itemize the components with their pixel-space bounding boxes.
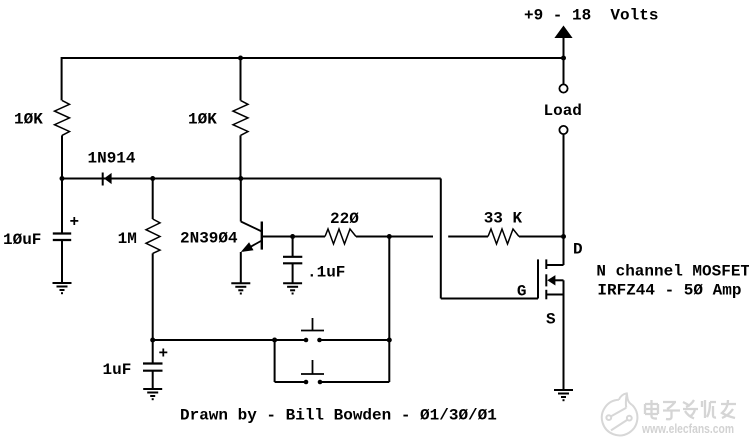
- wire 10uF bottom: [61, 240, 63, 283]
- resistor 10K right: [233, 100, 248, 135]
- wire collector: [240, 179, 242, 222]
- svg-text:N channel MOSFET: N channel MOSFET: [596, 263, 749, 281]
- junction top rail 10K: [238, 56, 243, 61]
- terminal load bottom circle: [559, 126, 567, 134]
- ground 10uF: [53, 283, 72, 293]
- resistor 33K: [488, 229, 519, 244]
- junction top rail supply: [561, 56, 566, 61]
- junction 1uF node: [150, 338, 155, 343]
- switch pushbutton 2: [301, 360, 324, 374]
- ground emitter: [231, 283, 250, 293]
- wire 1M bottom: [152, 253, 154, 340]
- watermark chinese text: [645, 400, 736, 419]
- junction switch right node: [387, 338, 392, 343]
- svg-text:+9 - 18 Volts: +9 - 18 Volts: [524, 7, 658, 25]
- wire diode row: [62, 178, 441, 180]
- power arrow +9-18V: [554, 26, 572, 39]
- junction 33K drain: [561, 234, 566, 239]
- svg-text:IRFZ44 - 5Ø Amp: IRFZ44 - 5Ø Amp: [597, 282, 741, 300]
- wire body lead: [555, 279, 564, 281]
- svg-text:S: S: [546, 311, 556, 329]
- wire 33K to drain: [519, 236, 564, 238]
- transistor 2N3904: [241, 222, 262, 253]
- svg-text:+: +: [70, 213, 80, 231]
- resistor 220: [325, 229, 356, 244]
- svg-text:www.elecfans.com: www.elecfans.com: [641, 422, 734, 436]
- wire gate feed horizontal: [441, 298, 538, 300]
- wire 1uF top: [152, 340, 154, 364]
- svg-text:1N914: 1N914: [88, 150, 136, 168]
- wire source lead: [546, 294, 563, 296]
- wire switch row2 right: [320, 381, 389, 383]
- wire load top: [563, 58, 565, 84]
- junction diode row collector: [238, 176, 243, 181]
- mosfet body arrow: [547, 275, 555, 285]
- wire left rail middle: [61, 135, 63, 178]
- wire junction to 33K: [448, 236, 488, 238]
- svg-text:2N39Ø4: 2N39Ø4: [180, 230, 238, 248]
- svg-text:Drawn by - Bill Bowden - Ø1/3Ø: Drawn by - Bill Bowden - Ø1/3Ø/Ø1: [180, 407, 497, 425]
- svg-text:.1uF: .1uF: [307, 264, 345, 282]
- svg-text:1ØK: 1ØK: [14, 111, 43, 129]
- wire emitter: [240, 252, 242, 283]
- switch 2 contact right: [318, 380, 323, 385]
- watermark logo circle: [602, 393, 638, 435]
- wire source vertical: [563, 280, 565, 390]
- resistor 1M: [146, 219, 160, 253]
- wire power stem: [563, 37, 565, 58]
- switch 2 contact left: [304, 380, 309, 385]
- wire switch left drop: [274, 340, 276, 382]
- svg-text:G: G: [517, 283, 527, 301]
- junction base .1uF: [290, 234, 295, 239]
- junction 220 switch feed: [387, 234, 392, 239]
- wire top rail: [62, 57, 564, 59]
- mosfet IRFZ44: [538, 259, 546, 299]
- wire switch row2 left: [275, 381, 306, 383]
- resistor 10K left: [55, 100, 70, 135]
- wire base lead: [262, 236, 325, 238]
- switch pushbutton 1: [301, 318, 324, 331]
- wire .1uF top: [292, 237, 294, 257]
- wire .1uF bottom: [292, 263, 294, 283]
- junction switch left node: [272, 338, 277, 343]
- terminal load top circle: [559, 84, 567, 92]
- svg-text:33 K: 33 K: [484, 210, 523, 228]
- junction diode row 1M: [150, 176, 155, 181]
- junction left rail diode row: [60, 176, 65, 181]
- ground .1uF: [283, 283, 302, 293]
- wire switch row2 rise: [388, 340, 390, 382]
- wire gate feed vertical: [440, 179, 442, 299]
- svg-text:1M: 1M: [118, 230, 137, 248]
- wire 10uF top: [61, 179, 63, 234]
- wire left rail upper: [61, 57, 63, 100]
- wire switch feed vertical: [388, 237, 390, 341]
- capacitor 1uF: [143, 364, 163, 371]
- wire 1uF bottom: [152, 371, 154, 389]
- wire 10K2 lower: [240, 135, 242, 178]
- wire 10K2 upper: [240, 58, 242, 100]
- switch 1 contact left: [304, 338, 309, 343]
- svg-text:1ØK: 1ØK: [188, 111, 217, 129]
- ground 1uF: [143, 389, 162, 399]
- wire drain vertical: [563, 134, 565, 265]
- capacitor .1uF: [283, 257, 302, 264]
- svg-text:Load: Load: [544, 102, 582, 120]
- wire drain lead: [546, 264, 563, 266]
- switch 1 contact right: [317, 338, 322, 343]
- svg-text:1ØuF: 1ØuF: [3, 231, 41, 249]
- wire switch row1 right: [320, 339, 390, 341]
- svg-text:22Ø: 22Ø: [330, 210, 359, 228]
- ground mosfet source: [554, 390, 573, 400]
- svg-text:1uF: 1uF: [103, 361, 132, 379]
- wire switch row1 left: [153, 339, 306, 341]
- wire 220 to junction: [356, 236, 433, 238]
- wire 1M top: [152, 179, 154, 220]
- svg-text:+: +: [159, 345, 169, 363]
- svg-text:D: D: [573, 241, 583, 259]
- capacitor 10uF: [53, 234, 71, 241]
- diode 1N914: [103, 173, 112, 186]
